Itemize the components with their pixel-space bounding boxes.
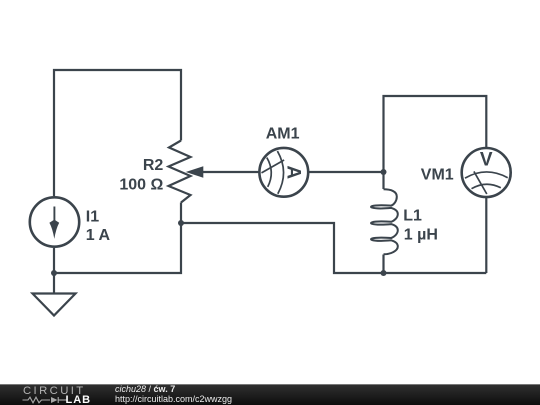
svg-text:1 A: 1 A [86, 227, 111, 244]
svg-text:AM1: AM1 [266, 125, 300, 142]
svg-text:VM1: VM1 [421, 167, 454, 184]
svg-text:R2: R2 [143, 157, 164, 174]
svg-text:1 µH: 1 µH [404, 226, 438, 243]
svg-text:A: A [283, 165, 304, 179]
svg-text:100 Ω: 100 Ω [119, 176, 163, 193]
svg-text:V: V [480, 150, 493, 171]
svg-text:I1: I1 [86, 208, 99, 225]
svg-text:L1: L1 [403, 208, 422, 225]
